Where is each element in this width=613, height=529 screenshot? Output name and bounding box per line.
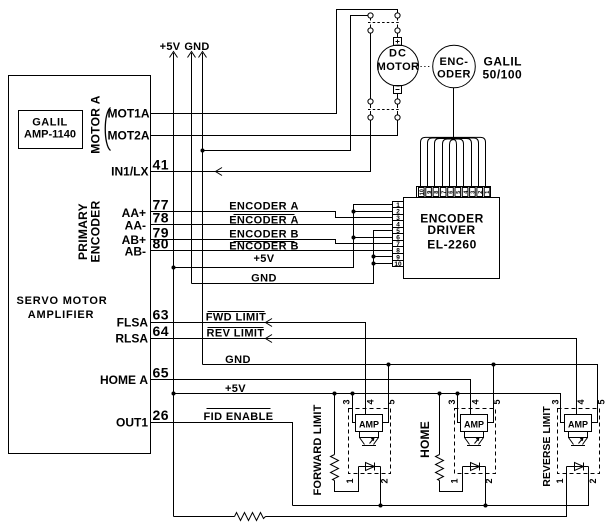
svg-text:AA-: AA-: [125, 219, 146, 233]
servo motor amplifier box: [9, 76, 151, 454]
svg-text:DRIVER: DRIVER: [427, 223, 475, 237]
DC motor circle: [378, 45, 419, 86]
dotted shaft link: [421, 66, 432, 68]
label MOTOR A (rotated): [88, 95, 102, 154]
bottom wire to conn3 pin1: [266, 467, 567, 517]
upper connector stub left lower: [370, 25, 372, 28]
svg-text:8: 8: [396, 247, 400, 254]
svg-text:+5V: +5V: [160, 41, 181, 53]
conn3 pin label 3: [550, 399, 560, 404]
conn1 pin label 3: [341, 399, 351, 404]
svg-text:8: 8: [434, 191, 440, 194]
junction dot conn1 pin5 on GND row: [387, 363, 391, 367]
conn3 pin3 wire: [561, 394, 565, 423]
conn1 junction dot resistor on +5V rail: [333, 392, 337, 396]
wire 79 ENCODER B to pin7: [151, 240, 393, 244]
lower connector stub right lower: [397, 111, 399, 115]
conn1 junction dot pin3 on +5V rail: [351, 392, 355, 396]
label FORWARD LIMIT (rotated): [312, 404, 324, 495]
conn2 plug arrow: [475, 438, 480, 444]
junction dot pin2: [352, 210, 356, 214]
GND rail 2 arrowhead: [199, 52, 207, 58]
svg-text:ENC-: ENC-: [440, 56, 469, 68]
junction dot +5V row: [172, 266, 176, 270]
svg-text:AMP: AMP: [568, 420, 588, 430]
driver top connector outer box: [417, 187, 491, 198]
svg-text:FORWARD LIMIT: FORWARD LIMIT: [312, 404, 324, 495]
lower connector jack circle left: [368, 115, 373, 120]
conn1 pin label 2: [379, 478, 389, 483]
svg-text:3: 3: [341, 399, 351, 404]
conn2 pin3 wire: [458, 394, 461, 423]
upper connector jack circle left: [368, 28, 373, 33]
GALIL AMP-1140 box: [19, 111, 83, 149]
junction dot conn2 pin5 on GND row: [492, 363, 496, 367]
wire pin10 branch: [374, 263, 393, 265]
conn1 pin label 1: [345, 478, 355, 483]
conn3 plug arrow: [579, 438, 584, 444]
junction dot conn1 pin2: [379, 504, 383, 508]
wire 26 FID ENABLE: [151, 423, 293, 506]
+5V vertical rail: [173, 53, 175, 517]
wire encoder to cable fan: [453, 88, 455, 138]
wire pin6 branch: [354, 237, 393, 239]
junction dot pin10: [372, 262, 376, 266]
conn1 dashed outline: [349, 409, 391, 474]
svg-text:OUT1: OUT1: [116, 416, 148, 430]
svg-text:DC: DC: [389, 48, 407, 60]
junction dot +5V rail left: [172, 392, 176, 396]
conn2 diode: [471, 463, 480, 471]
svg-text:65: 65: [153, 365, 170, 381]
conn2 plug shape: [465, 432, 484, 446]
upper connector mating dashed line: [368, 22, 400, 24]
label HOME (rotated): [418, 421, 432, 458]
junction dot pin9: [372, 255, 376, 259]
wire MOT2A: [151, 120, 398, 135]
motor plus sign: [396, 40, 400, 44]
conn3 pin label 2: [588, 478, 598, 483]
wire 80 /ENCODER B to pin8: [151, 250, 393, 252]
upper connector stub left upper: [370, 18, 372, 20]
svg-text:5: 5: [596, 399, 606, 404]
svg-text:1: 1: [345, 478, 355, 483]
upper connector plug circle right: [395, 13, 400, 18]
svg-text:+5V: +5V: [225, 383, 246, 395]
conn3 AMP box: [565, 415, 592, 432]
svg-text:GND: GND: [251, 273, 277, 285]
conn2 AMP box: [461, 415, 488, 432]
svg-text:3: 3: [447, 399, 457, 404]
svg-text:+5V: +5V: [253, 253, 274, 265]
overline FWD LIMIT: [208, 311, 265, 313]
svg-text:SERVO MOTOR: SERVO MOTOR: [17, 295, 108, 307]
conn1 pin label 4: [365, 399, 375, 404]
conn3 diode: [575, 463, 584, 471]
conn1 plug shape: [360, 432, 379, 446]
svg-text:ENCODER A: ENCODER A: [229, 201, 299, 213]
svg-text:5: 5: [492, 399, 502, 404]
encoder circle: [433, 45, 476, 88]
pin2 common rail: [293, 467, 589, 506]
label REVERSE LIMIT (rotated): [541, 406, 553, 487]
svg-text:64: 64: [153, 323, 170, 339]
lower connector mating dashed line: [368, 109, 400, 111]
GND vertical rail 1: [191, 53, 193, 284]
conn2 pin label 2: [484, 478, 494, 483]
svg-text:EL-2260: EL-2260: [427, 238, 477, 252]
svg-text:MOT1A: MOT1A: [108, 107, 150, 121]
svg-text:MOT2A: MOT2A: [108, 129, 150, 143]
conn2 pin label 3: [447, 399, 457, 404]
driver left pin column pins 1-10: [393, 202, 404, 268]
wire pin2 branch: [354, 211, 393, 213]
wire right column to motor plus: [397, 33, 399, 37]
conn2 pin label 1: [449, 478, 459, 483]
wire pin9 branch: [374, 256, 393, 258]
motor plus terminal box: [394, 38, 402, 46]
wire motor minus to lower connector: [397, 94, 399, 99]
conn1 resistor (zigzag): [331, 455, 339, 481]
svg-text:REV LIMIT: REV LIMIT: [207, 328, 265, 340]
lower connector jack circle right: [395, 115, 400, 120]
+5V rail arrowhead: [170, 52, 178, 58]
conn2 pin label 5: [492, 399, 502, 404]
svg-text:ODER: ODER: [437, 69, 471, 81]
conn1 pin5 wire: [383, 365, 389, 423]
conn1 AMP box: [356, 415, 383, 432]
svg-text:5: 5: [456, 191, 462, 194]
svg-text:GALIL: GALIL: [32, 117, 68, 129]
conn2 junction dot pin3 on +5V rail: [456, 392, 460, 396]
svg-text:3: 3: [550, 399, 560, 404]
conn2 diode wire: [463, 466, 486, 468]
motor minus terminal box: [394, 86, 402, 94]
svg-text:2: 2: [484, 478, 494, 483]
svg-text:41: 41: [153, 157, 170, 173]
overline ENCODER A bar: [234, 214, 295, 216]
svg-text:AMP: AMP: [464, 420, 484, 430]
wire 63 FWD LIMIT to conn1 pin4: [151, 323, 366, 415]
upper connector plug circle left: [368, 13, 373, 18]
svg-text:4: 4: [365, 399, 375, 404]
conn2 resistor wire top: [439, 394, 441, 455]
arrowhead FWD LIMIT: [266, 319, 273, 327]
lower connector stub left lower: [370, 111, 372, 115]
wire 64 REV LIMIT to conn3 pin4: [151, 339, 577, 415]
conn1 diode wire: [359, 466, 381, 468]
svg-text:3: 3: [471, 191, 477, 194]
wire MOT1A: [151, 10, 398, 114]
svg-text:50/100: 50/100: [483, 68, 523, 82]
svg-text:IN1/LX: IN1/LX: [111, 165, 148, 179]
svg-text:GND: GND: [184, 41, 209, 53]
svg-text:MOTOR: MOTOR: [377, 61, 420, 73]
wire left column to lower connector: [370, 33, 372, 99]
svg-text:80: 80: [153, 236, 170, 252]
wire 78 /ENCODER A to pin4: [151, 224, 393, 226]
arrowhead REV LIMIT: [266, 335, 273, 343]
svg-text:2: 2: [379, 478, 389, 483]
svg-text:4: 4: [463, 190, 469, 194]
lower connector stub right upper: [397, 104, 399, 108]
upper connector jack circle right: [395, 28, 400, 33]
wire IN1/LX: [151, 120, 371, 171]
svg-text:AMP: AMP: [359, 420, 379, 430]
motor minus sign: [396, 89, 400, 91]
svg-text:4: 4: [470, 399, 480, 404]
lower connector plug circle left: [368, 99, 373, 104]
GND rail 1 arrowhead: [188, 52, 196, 58]
svg-text:26: 26: [153, 407, 170, 423]
svg-text:2: 2: [478, 191, 484, 194]
wire 65 HOME A to conn2 pin4: [151, 380, 471, 415]
svg-text:ENCODER: ENCODER: [89, 200, 103, 262]
conn2 pin1 wire: [462, 467, 464, 492]
lower connector stub left upper: [370, 104, 372, 108]
svg-text:1: 1: [449, 478, 459, 483]
svg-text:10: 10: [420, 189, 426, 195]
brace for MOTOR A pins: [105, 108, 110, 151]
svg-text:6: 6: [449, 191, 455, 194]
conn1 resistor wire bottom: [335, 467, 359, 492]
conn3 pin label 1: [555, 478, 565, 483]
svg-text:GND: GND: [225, 354, 251, 366]
wire +5V row to driver: [174, 205, 393, 268]
svg-text:63: 63: [153, 307, 170, 323]
conn2 pin2 wire: [485, 467, 487, 506]
overline ENCODER B bar: [234, 241, 295, 243]
conn1 pin2 wire: [380, 467, 382, 506]
conn2 pin5 wire: [488, 365, 494, 423]
wire 77 ENCODER A to pin3: [151, 212, 393, 218]
junction dot pin6: [352, 236, 356, 240]
svg-text:FID ENABLE: FID ENABLE: [204, 411, 274, 423]
svg-text:10: 10: [394, 261, 402, 268]
overline REV LIMIT: [208, 327, 264, 329]
encoder driver box: [404, 198, 500, 279]
conn3 plug shape: [569, 432, 588, 446]
conn1 plug arrow: [370, 438, 375, 444]
conn3 diode wire: [567, 466, 589, 468]
conn2 resistor (zigzag): [436, 455, 444, 481]
conn1 pin3 wire: [353, 394, 356, 423]
svg-text:1: 1: [555, 478, 565, 483]
lower connector plug circle right: [395, 99, 400, 104]
wire GND2 to upper connector: [203, 16, 368, 151]
junction dot conn2 pin2: [484, 504, 488, 508]
arrowhead IN1/LX: [216, 168, 223, 176]
wire GND row for switches: [203, 365, 598, 423]
upper connector stub right upper: [397, 18, 399, 20]
svg-text:5: 5: [386, 399, 396, 404]
conn3 dashed outline: [558, 409, 600, 474]
wire GND row to driver: [192, 231, 393, 284]
overline FID ENABLE: [207, 408, 271, 410]
conn3 pin label 4: [576, 399, 586, 404]
svg-text:MOTOR A: MOTOR A: [88, 95, 102, 154]
GND vertical rail 2: [202, 53, 204, 365]
conn3 pin1 wire: [566, 467, 568, 517]
svg-text:7: 7: [441, 191, 447, 194]
svg-text:AB-: AB-: [125, 245, 146, 259]
conn2 dashed outline: [455, 409, 496, 474]
svg-text:RLSA: RLSA: [115, 332, 148, 346]
upper connector stub right lower: [397, 25, 399, 28]
svg-text:FWD LIMIT: FWD LIMIT: [206, 312, 266, 324]
svg-text:4: 4: [576, 399, 586, 404]
conn2 resistor wire bottom: [440, 467, 463, 492]
conn2 junction dot resistor on +5V rail: [438, 392, 442, 396]
conn1 resistor wire top: [334, 394, 336, 455]
svg-text:HOME: HOME: [418, 421, 432, 458]
svg-text:9: 9: [427, 191, 433, 194]
svg-text:HOME A: HOME A: [100, 373, 148, 387]
junction dot GND2 branch: [201, 149, 205, 153]
bottom +5V wire with resistor: [174, 516, 235, 518]
svg-text:ENCODER B: ENCODER B: [229, 241, 299, 253]
svg-text:2: 2: [588, 478, 598, 483]
svg-text:REVERSE LIMIT: REVERSE LIMIT: [541, 406, 553, 487]
svg-text:AMP-1140: AMP-1140: [24, 129, 76, 141]
conn1 pin label 5: [386, 399, 396, 404]
svg-text:AMPLIFIER: AMPLIFIER: [28, 309, 94, 321]
driver top connector pin boxes with numbers: [419, 188, 492, 197]
svg-text:ENCODER A: ENCODER A: [229, 215, 299, 227]
label ENCODER (rotated): [89, 200, 103, 262]
conn1 diode: [366, 463, 375, 471]
conn2 pin label 4: [470, 399, 480, 404]
svg-text:1: 1: [485, 191, 491, 194]
encoder cable fan wires: [421, 137, 486, 186]
resistor R bottom (zigzag): [235, 513, 266, 521]
svg-text:FLSA: FLSA: [117, 316, 149, 330]
svg-text:GALIL: GALIL: [484, 55, 523, 69]
wire +5V rail for switches: [174, 394, 565, 423]
svg-text:ENCODER B: ENCODER B: [229, 229, 299, 241]
conn1 pin1 wire: [358, 467, 360, 492]
label PRIMARY (rotated): [76, 203, 90, 260]
conn3 pin label 5: [596, 399, 606, 404]
